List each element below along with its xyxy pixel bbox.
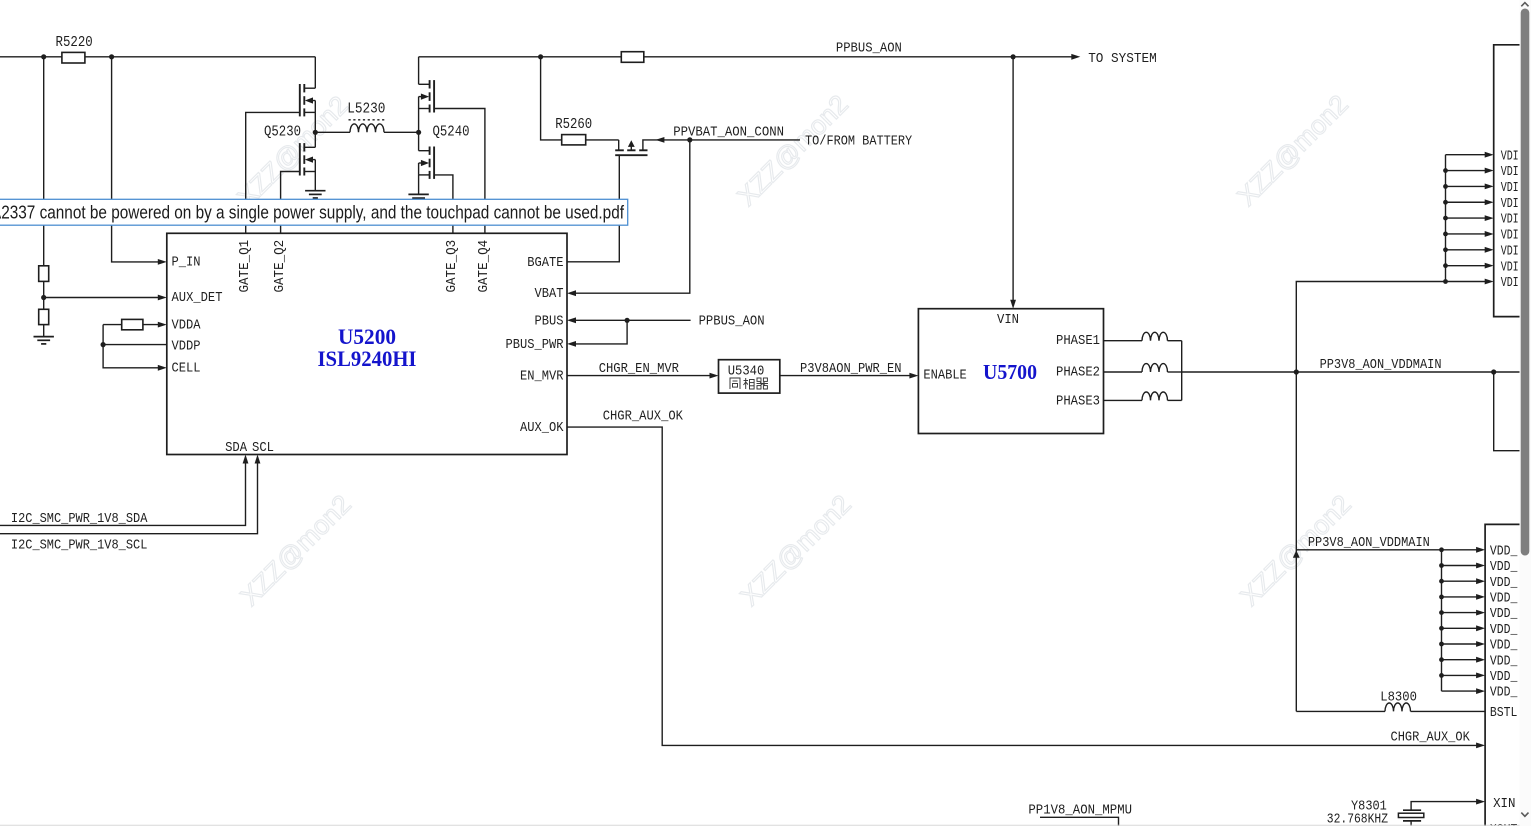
pin GATE_Q3 <box>445 240 460 293</box>
svg-text:TO/FROM BATTERY: TO/FROM BATTERY <box>805 134 913 150</box>
node junction R5260 tap <box>538 54 543 59</box>
wire PPBUS_AON top rail left segment <box>0 57 315 88</box>
pin VDDP <box>172 340 201 355</box>
svg-text:32.768KHZ: 32.768KHZ <box>1327 813 1388 826</box>
svg-text:P_IN: P_IN <box>172 256 201 271</box>
svg-text:VDD_: VDD_ <box>1490 654 1518 669</box>
wire Q5240 upper gate to GATE_Q4 <box>434 109 485 234</box>
svg-text:GATE_Q1: GATE_Q1 <box>238 240 253 293</box>
arrow CHGR_AUX_OK <box>1476 743 1485 749</box>
wire Q5240 mid rail <box>418 109 420 151</box>
svg-text:I2C_SMC_PWR_1V8_SDA: I2C_SMC_PWR_1V8_SDA <box>11 512 148 527</box>
svg-text:VDD_: VDD_ <box>1490 544 1518 559</box>
arrow PP3V8 up (net direction) <box>1293 550 1300 558</box>
wire VBAT <box>573 140 690 293</box>
pin VDDA <box>172 319 202 334</box>
ic U5700 box <box>918 309 1103 434</box>
pin VBAT <box>535 287 564 302</box>
svg-text:Q5240: Q5240 <box>433 124 470 141</box>
wire PHASE1 inductor to bus <box>1168 340 1182 342</box>
arrow PBUS <box>567 317 576 323</box>
pin GATE_Q1 <box>238 240 253 293</box>
pin AUX_OK <box>520 421 564 436</box>
pin XIN <box>1493 797 1515 812</box>
svg-text:GATE_Q4: GATE_Q4 <box>477 240 492 293</box>
wire Q5230 upper gate to GATE_Q1 <box>246 112 300 233</box>
pin P_IN <box>172 256 201 271</box>
wire VDD bus bottom-right <box>1439 547 1485 694</box>
wire PHASE1 to inductor <box>1104 340 1143 342</box>
label 32.768KHZ <box>1327 813 1388 826</box>
svg-text:VDI: VDI <box>1501 244 1519 259</box>
wire phase bus vertical <box>1181 341 1183 401</box>
pin BGATE <box>527 256 563 271</box>
arrow XIN <box>1476 799 1485 805</box>
wire BGATE <box>567 155 619 262</box>
ic U1800 box (top right, partial) <box>1494 45 1520 317</box>
svg-text:EN_MVR: EN_MVR <box>520 370 564 385</box>
scrollbar right <box>1520 0 1531 826</box>
arrow ENABLE <box>909 373 918 379</box>
resistor R5221 (upper of divider) <box>39 266 49 282</box>
svg-text:R5260: R5260 <box>555 116 592 133</box>
svg-text:I2C_SMC_PWR_1V8_SCL: I2C_SMC_PWR_1V8_SCL <box>11 538 148 553</box>
svg-text:PP3V8_AON_VDDMAIN: PP3V8_AON_VDDMAIN <box>1320 358 1442 373</box>
arrow PPVBAT direction <box>655 137 664 143</box>
pin VDD_ labels bottom-right <box>1490 544 1518 700</box>
pin GATE_Q2 <box>273 240 288 293</box>
label PPBUS_AON top <box>836 41 902 57</box>
arrow VDDA <box>158 322 167 328</box>
svg-text:VDI: VDI <box>1501 197 1519 212</box>
wire divider to ground <box>43 325 45 337</box>
svg-text:GATE_Q2: GATE_Q2 <box>273 240 288 293</box>
resistor R5222 (lower of divider) <box>39 309 49 324</box>
pin XOUT (clipped) <box>1490 823 1518 826</box>
resistor R5260 <box>562 135 586 145</box>
svg-text:TO SYSTEM: TO SYSTEM <box>1088 51 1157 67</box>
wire Q5230 lower gate to GATE_Q2 <box>281 172 300 234</box>
arrow AUX_DET <box>158 295 167 301</box>
resistor R5265 (unlabeled, top rail) <box>621 52 644 63</box>
wire CHGR_EN_MVR <box>567 375 711 377</box>
wire L5230 left <box>315 131 350 133</box>
svg-text:U5700: U5700 <box>983 360 1037 384</box>
wire PP1V8_AON_MPMU <box>1040 817 1119 826</box>
pin PHASE3 <box>1056 395 1100 410</box>
svg-text:VDD_: VDD_ <box>1490 576 1518 591</box>
svg-text:VDD_: VDD_ <box>1490 686 1518 701</box>
arrow SCL <box>255 455 261 464</box>
inductor L5703 PHASE3 <box>1142 392 1168 400</box>
svg-text:PPVBAT_AON_CONN: PPVBAT_AON_CONN <box>673 125 784 140</box>
transistor Q5240 upper FET <box>419 80 435 112</box>
inductor L5230 <box>350 124 384 132</box>
label U5200 <box>338 324 396 349</box>
svg-text:P3V8AON_PWR_EN: P3V8AON_PWR_EN <box>800 362 902 377</box>
label L5230 underline <box>349 119 386 121</box>
transistor Q5230 upper FET <box>300 84 316 116</box>
pin CELL <box>172 362 201 377</box>
svg-text:AUX_DET: AUX_DET <box>172 291 223 306</box>
svg-text:VDI: VDI <box>1501 149 1519 164</box>
label PP3V8_AON_VDDMAIN lower <box>1308 536 1430 551</box>
wire PPBUS_AON top rail right segment <box>419 57 1072 85</box>
label CHGR_EN_MVR <box>599 362 679 377</box>
svg-text:L5230: L5230 <box>347 101 385 118</box>
label 同相器 (U5340 function) <box>730 378 768 389</box>
transistor Q5202 battery P-FET <box>615 140 800 155</box>
svg-text:VDI: VDI <box>1501 260 1519 275</box>
label PPBUS_AON mid <box>699 313 765 329</box>
svg-text:PP1V8_AON_MPMU: PP1V8_AON_MPMU <box>1028 803 1132 818</box>
label P3V8AON_PWR_EN <box>800 362 902 377</box>
node junction PPVBAT <box>687 137 692 142</box>
svg-text:CELL: CELL <box>172 362 201 377</box>
pin PHASE2 <box>1056 366 1100 381</box>
label R5260 <box>555 116 592 133</box>
transistor Q5230 lower FET <box>300 143 316 175</box>
svg-text:XIN: XIN <box>1493 797 1515 812</box>
wire divider middle <box>43 281 45 309</box>
label I2C_SMC_PWR_1V8_SCL <box>11 538 148 553</box>
pin SDA <box>225 441 248 456</box>
node junction right box feed <box>1491 369 1496 374</box>
wire XIN <box>1411 802 1478 811</box>
wire Q5240 lower gate to GATE_Q3 <box>434 175 453 233</box>
inductor L8300 <box>1385 703 1411 711</box>
ic U5340 box <box>719 360 780 393</box>
pin GATE_Q4 <box>477 240 492 293</box>
wire PHASE3 inductor to bus <box>1168 399 1182 401</box>
wire CHGR_AUX_OK <box>567 427 1479 745</box>
node junction P_IN tap <box>109 54 114 59</box>
wire AUX_DET <box>44 297 161 299</box>
svg-text:VDI: VDI <box>1501 229 1519 244</box>
wire PBUS_PWR <box>573 320 627 344</box>
wire PP3V8_AON_VDDMAIN out <box>1182 371 1520 373</box>
node junction PP3V8 tee <box>1294 369 1299 374</box>
label CHGR_AUX_OK right <box>1391 731 1471 746</box>
pin EN_MVR <box>520 370 564 385</box>
tooltip filename overlay <box>0 199 628 225</box>
wire VDD feed from PP3V8 <box>1296 282 1445 373</box>
wire PHASE3 to inductor <box>1104 399 1143 401</box>
svg-text:PPBUS_AON: PPBUS_AON <box>836 41 902 57</box>
label TO/FROM BATTERY <box>805 134 913 150</box>
svg-text:VDD_: VDD_ <box>1490 607 1518 622</box>
svg-text:BGATE: BGATE <box>527 256 563 271</box>
wire Q5230 source to ground <box>314 172 316 191</box>
label Y8301 <box>1351 799 1387 814</box>
label Q5240 <box>433 124 470 141</box>
label L5230 <box>347 101 385 118</box>
pin BSTL <box>1490 706 1518 721</box>
svg-text:AUX_OK: AUX_OK <box>520 421 564 436</box>
wire PP3V8_AON_VDDMAIN lower <box>1296 549 1478 551</box>
svg-text:CHGR_AUX_OK: CHGR_AUX_OK <box>1391 731 1471 746</box>
arrow P_IN <box>158 259 167 265</box>
ground Q5230 <box>305 191 325 198</box>
node junction AUX_DET <box>41 295 46 300</box>
viewport bottom hairline <box>0 824 1520 826</box>
svg-text:VDI: VDI <box>1501 181 1519 196</box>
label U5700 <box>983 360 1037 384</box>
svg-text:ENABLE: ENABLE <box>923 368 966 383</box>
arrow TO SYSTEM <box>1071 54 1080 60</box>
svg-text:PHASE2: PHASE2 <box>1056 366 1100 381</box>
wire L8300 to BSTL <box>1411 710 1486 712</box>
pin VDD labels top-right <box>1501 149 1519 291</box>
svg-text:GATE_Q3: GATE_Q3 <box>445 240 460 293</box>
resistor R5220 <box>62 52 85 63</box>
arrow VIN <box>1010 300 1016 309</box>
pin ENABLE <box>923 368 966 383</box>
svg-text:Q5230: Q5230 <box>264 124 301 141</box>
svg-text:ISL9240HI: ISL9240HI <box>318 346 417 371</box>
svg-text:VDI: VDI <box>1501 165 1519 180</box>
arrow into U5340 <box>710 373 719 379</box>
svg-text:PP3V8_AON_VDDMAIN: PP3V8_AON_VDDMAIN <box>1308 536 1430 551</box>
node junction Q5240 phase <box>416 130 421 135</box>
svg-text:SDA: SDA <box>225 441 248 456</box>
wire L8300 feed <box>1296 710 1385 712</box>
wire Q5240 source to ground <box>418 175 420 194</box>
node junction Q5230 phase <box>313 130 318 135</box>
svg-text:VDDA: VDDA <box>172 319 202 334</box>
label R5220 <box>56 34 93 51</box>
wire Q5230 mid rail <box>314 112 316 147</box>
wire VDD bus top-right <box>1443 152 1494 285</box>
svg-text:CHGR_EN_MVR: CHGR_EN_MVR <box>599 362 679 377</box>
pin VIN label <box>997 313 1019 328</box>
ground Q5240 <box>408 194 428 201</box>
label ISL9240HI <box>318 346 417 371</box>
svg-text:PHASE3: PHASE3 <box>1056 395 1100 410</box>
transistor Q5240 lower FET <box>419 147 435 179</box>
crystal Y8301 <box>1398 810 1423 826</box>
wire R5260 feed <box>541 57 562 140</box>
label PP1V8_AON_MPMU <box>1028 803 1132 818</box>
arrow PBUS_PWR <box>567 341 576 347</box>
ic U5200 box <box>167 233 567 454</box>
svg-text:R5220: R5220 <box>56 34 93 51</box>
wire PHASE2 to inductor <box>1104 371 1143 373</box>
wire left stack vertical <box>43 57 45 266</box>
svg-text:A2337 cannot be powered on by: A2337 cannot be powered on by a single p… <box>0 203 625 223</box>
wire VDDA/VDDP/CELL bracket <box>103 325 167 368</box>
label Q5230 <box>264 124 301 141</box>
wire PP3V8 trunk down <box>1295 372 1297 711</box>
arrow VBAT <box>567 290 576 296</box>
pin SCL <box>252 441 274 456</box>
label L8300 <box>1380 691 1417 706</box>
label PPVBAT_AON_CONN <box>673 125 784 140</box>
svg-text:PPBUS_AON: PPBUS_AON <box>699 313 765 329</box>
wire right box lower feed <box>1494 372 1520 451</box>
svg-text:VDD_: VDD_ <box>1490 670 1518 685</box>
svg-text:BSTL: BSTL <box>1490 706 1518 721</box>
node junction VIN tap <box>1011 54 1016 59</box>
inductor L5701 PHASE1 <box>1142 332 1168 340</box>
svg-text:CHGR_AUX_OK: CHGR_AUX_OK <box>603 409 684 424</box>
svg-text:VDD_: VDD_ <box>1490 639 1518 654</box>
svg-text:SCL: SCL <box>252 441 274 456</box>
svg-text:VDD_: VDD_ <box>1490 623 1518 638</box>
svg-text:VDDP: VDDP <box>172 340 201 355</box>
svg-text:PBUS: PBUS <box>535 315 564 330</box>
node junction left stack <box>41 54 46 59</box>
wire PBUS <box>573 319 691 321</box>
inductor L5702 PHASE2 <box>1142 364 1168 372</box>
svg-text:VDI: VDI <box>1501 276 1519 291</box>
arrow SDA <box>243 455 249 464</box>
wire P3V8AON_PWR_EN <box>780 375 912 377</box>
ic U8300 box (bottom right, partial) <box>1485 524 1519 826</box>
wire I2C SCL <box>0 461 258 534</box>
label I2C_SMC_PWR_1V8_SDA <box>11 512 148 527</box>
svg-text:VIN: VIN <box>997 313 1019 328</box>
wire I2C SDA <box>0 461 246 525</box>
pin AUX_DET <box>172 291 223 306</box>
arrow CELL <box>158 365 167 371</box>
wire R5260 to Q5202 <box>586 139 619 141</box>
svg-text:PBUS_PWR: PBUS_PWR <box>506 338 564 353</box>
node junction VDDP <box>101 342 106 347</box>
resistor R5223 (VDDA series) <box>122 319 143 329</box>
wire L5230 right <box>384 131 419 133</box>
svg-text:PHASE1: PHASE1 <box>1056 334 1100 349</box>
svg-text:U5340: U5340 <box>728 364 765 379</box>
wire P_IN <box>112 57 161 262</box>
ground left divider <box>34 337 54 344</box>
node junction PBUS <box>625 318 630 323</box>
wire VIN <box>1012 57 1014 301</box>
svg-text:VDI: VDI <box>1501 213 1519 228</box>
wire PHASE2 inductor to bus <box>1168 371 1182 373</box>
svg-text:VDD_: VDD_ <box>1490 560 1518 575</box>
label CHGR_AUX_OK left <box>603 409 684 424</box>
pin PBUS <box>535 315 564 330</box>
watermark XZZ@mon2 tiles <box>231 89 1357 612</box>
label PP3V8_AON_VDDMAIN upper <box>1320 358 1442 373</box>
label U5340 <box>728 364 765 379</box>
pin PHASE1 <box>1056 334 1100 349</box>
label TO SYSTEM <box>1088 51 1157 67</box>
svg-text:VDD_: VDD_ <box>1490 592 1518 607</box>
svg-text:VBAT: VBAT <box>535 287 564 302</box>
svg-text:L8300: L8300 <box>1380 691 1417 706</box>
pin PBUS_PWR <box>506 338 564 353</box>
